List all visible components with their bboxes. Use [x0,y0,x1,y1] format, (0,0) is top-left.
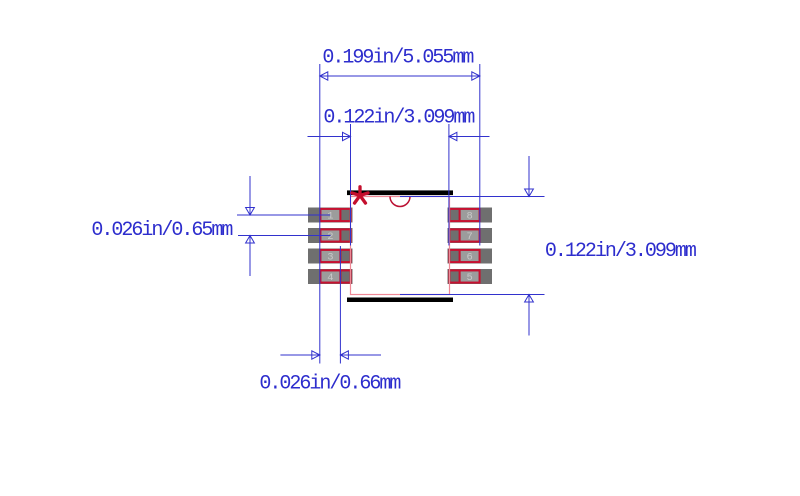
pitch pointer line to pad 2 center [238,235,331,237]
svg-text:6: 6 [466,252,472,264]
pad 5 (right) [448,269,493,284]
pad 3 (left) [308,249,353,264]
pitch dimension arrows (left, x=250) [246,176,255,276]
dimension line 0.199in/5.055mm with arrows [320,72,480,80]
svg-text:0.026in/0.66mm: 0.026in/0.66mm [259,372,400,395]
pad 7 (right) [448,228,493,243]
dimension extension line (inner left, x=350.5) [350,124,352,246]
dimension line 0.122in/3.099mm (top) with outside arrows [308,132,490,140]
svg-text:0.199in/5.055mm: 0.199in/5.055mm [322,46,473,69]
body height extension line (top right, y=196.5) [400,196,545,198]
svg-text:0.122in/3.099mm: 0.122in/3.099mm [323,106,474,129]
dimension label 0.122in/3.099mm (right) [545,240,696,263]
pitch pointer line to pad 1 center [237,214,331,216]
svg-text:4: 4 [327,272,333,284]
pad 4 (left) [308,269,353,284]
black body end bar (bottom) [347,298,453,303]
pad 8 (right) [448,208,493,223]
svg-text:5: 5 [466,272,472,284]
dimension label 0.026in/0.66mm (bottom) [259,372,400,395]
svg-text:0.122in/3.099mm: 0.122in/3.099mm [545,240,696,263]
svg-text:2: 2 [327,231,333,243]
package body outline [351,197,450,295]
pad 2 (left) [308,228,353,243]
body height extension line (bottom right, y=294.5) [400,294,545,296]
svg-text:8: 8 [466,211,472,223]
dimension label 0.122in/3.099mm (top) [323,106,474,129]
dimension extension line (outer right, x=479.8) [479,64,481,246]
dimension label 0.026in/0.65mm (left) [91,219,232,242]
svg-text:3: 3 [327,252,333,264]
body height dimension arrows (right, x=529) [525,156,534,336]
pin numbers [327,211,473,285]
pad 6 (right) [448,249,493,264]
dimension extension line (outer left, x=319.8) [319,64,321,364]
svg-text:1: 1 [327,211,333,223]
dimension extension line (lead right edge, x=340.4) [339,246,341,364]
pin-1 index notch (semicircle) [390,197,410,207]
lead width dimension arrows (bottom, y=355) [280,351,381,359]
pin 1 marker asterisk [352,187,368,203]
svg-text:0.026in/0.65mm: 0.026in/0.65mm [91,219,232,242]
svg-text:7: 7 [466,231,472,243]
black body end bar (top) [347,190,453,195]
dimension extension line (inner right, x=448.9) [448,124,450,246]
dimension label 0.199in/5.055mm [322,46,473,69]
pad 1 (left, copper land) [308,208,353,223]
